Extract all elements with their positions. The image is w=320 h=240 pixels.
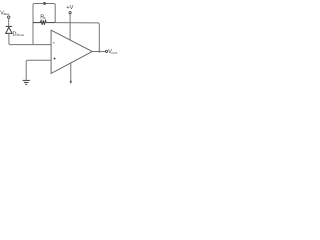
svg-text:Photo: Photo <box>17 33 25 37</box>
wire ground stem <box>26 60 27 80</box>
label R_F <box>40 15 46 21</box>
op-amp plus sign <box>54 58 56 60</box>
junction dot feedback/output <box>98 51 100 53</box>
wire +V supply lead <box>69 14 71 40</box>
wire feedback top rail <box>34 4 55 23</box>
svg-text:OUT: OUT <box>111 51 117 55</box>
terminal +V <box>69 12 71 14</box>
photodiode D_Photo <box>6 26 12 33</box>
wire Vbias to diode cathode <box>8 18 10 26</box>
resistor R_F <box>33 20 55 24</box>
negative supply arrowhead <box>70 81 72 84</box>
op-amp U1 triangle <box>51 30 92 73</box>
svg-text:+V: +V <box>66 5 73 11</box>
wire feedback left vertical <box>33 4 34 45</box>
svg-text:F: F <box>44 16 46 20</box>
wire output <box>92 51 105 53</box>
op-amp minus sign <box>53 42 54 44</box>
background <box>0 0 120 86</box>
wire diode anode to inverting input <box>9 34 51 45</box>
wire feedback rail to output junction <box>55 23 99 52</box>
wire negative supply lead <box>70 63 72 81</box>
ground <box>23 80 30 84</box>
terminal Vout <box>106 50 108 52</box>
capacitor blob on top rail <box>43 2 45 5</box>
wire noninverting input <box>28 59 51 61</box>
label D_Photo <box>13 32 25 38</box>
node Vbias label <box>0 10 9 16</box>
label Vout <box>108 49 118 55</box>
terminal Vbias <box>8 16 10 18</box>
